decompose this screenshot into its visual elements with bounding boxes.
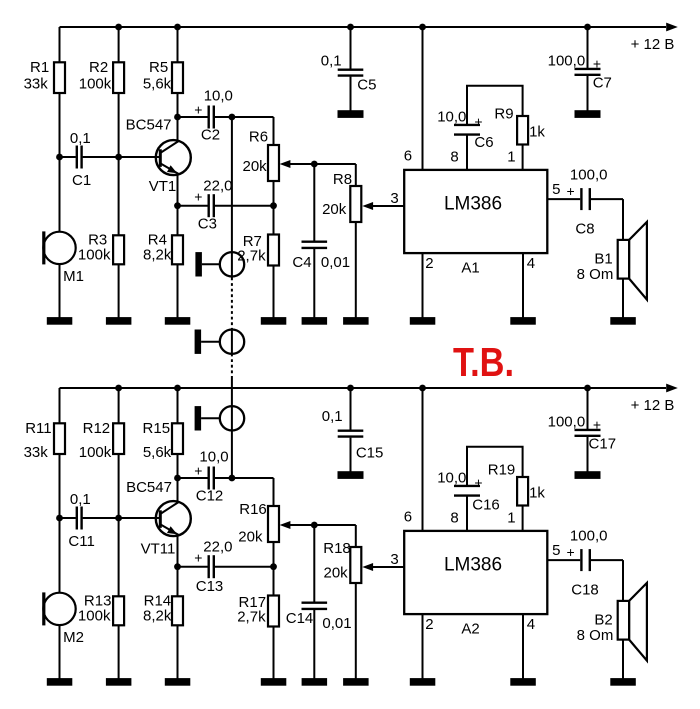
potentiometer R6 20k — [243, 128, 279, 181]
svg-text:20k: 20k — [322, 201, 347, 218]
junction dot: emitter/C3 (top) — [174, 202, 181, 209]
ground under R8 (top) — [343, 317, 369, 325]
resistor R19 1k — [488, 461, 546, 505]
wire: wiper junction down to C14 top plate — [313, 525, 315, 602]
junction dot: rail/C15 (bottom) — [347, 385, 354, 392]
svg-text:5,6k: 5,6k — [143, 76, 172, 93]
svg-text:Т.В.: Т.В. — [453, 339, 514, 385]
svg-text:3: 3 — [390, 190, 398, 207]
wire: pin 5 of A1 to C8 left plate — [547, 198, 580, 200]
junction dot: mic/C11 (bottom) — [56, 515, 63, 522]
microphone M2 — [42, 592, 84, 646]
wire: R18 bottom to ground — [355, 583, 357, 680]
svg-text:8: 8 — [450, 148, 458, 165]
svg-text:2: 2 — [425, 616, 433, 633]
junction dot: emitter/C13 (bottom) — [174, 563, 181, 570]
svg-text:C14: C14 — [286, 610, 314, 627]
wire: junction to R17 top — [273, 567, 275, 596]
svg-text:22,0: 22,0 — [203, 539, 232, 556]
wire: C7 bottom plate to ground — [587, 76, 589, 111]
svg-text:4: 4 — [527, 616, 535, 633]
capacitor C3 22,0 (electrolytic) — [194, 178, 232, 233]
svg-text:+: + — [567, 183, 575, 199]
wire: R15 bottom to collector of VT11 — [177, 454, 179, 502]
resistor R9 1k — [494, 105, 545, 144]
wire: pin 4 of A2 to ground — [522, 614, 524, 680]
svg-text:A1: A1 — [461, 259, 479, 276]
resistor R15 5,6k — [143, 420, 183, 461]
wire: R11 bottom to mic M2 top — [59, 454, 61, 593]
wire: rail to R5 top — [177, 27, 179, 63]
svg-text:BC547: BC547 — [126, 479, 172, 496]
svg-text:0,1: 0,1 — [70, 130, 91, 147]
resistor R13 100k — [78, 592, 124, 625]
R16 wiper arrowhead — [280, 521, 291, 529]
wire: rail to pin 6 of A2 — [422, 388, 424, 532]
wire: R1 bottom to mic M1 top — [59, 93, 61, 232]
wire: mic M1 bottom to ground — [59, 264, 61, 319]
svg-text:C8: C8 — [575, 220, 594, 237]
wire: C5 bottom plate to ground — [350, 77, 352, 111]
capacitor C13 22,0 (electrolytic) — [194, 539, 232, 595]
potentiometer R16 20k — [238, 501, 279, 545]
svg-text:8,2k: 8,2k — [143, 247, 172, 264]
wire: pin 2 of A1 to ground — [422, 253, 424, 319]
+12V rail arrowhead (top) — [666, 23, 678, 32]
svg-text:8 Om: 8 Om — [577, 627, 614, 644]
svg-text:6: 6 — [404, 147, 412, 164]
svg-text:LM386: LM386 — [444, 554, 502, 575]
svg-text:+: + — [194, 101, 202, 117]
svg-text:5: 5 — [552, 181, 560, 198]
svg-text:100k: 100k — [79, 444, 112, 461]
wire: rail to pin 6 of A1 — [422, 27, 424, 171]
wire: dotted cable between jack X2 and jack X3 — [231, 354, 233, 377]
wire: C17 bottom plate to ground — [587, 437, 589, 472]
wire: +12V supply rail (bottom) — [60, 387, 667, 389]
junction dot: rail/pin6 (top) — [419, 24, 426, 31]
svg-text:M1: M1 — [63, 268, 84, 285]
junction dot: R2/R3 base node (top) — [115, 154, 122, 161]
wire: R3 bottom to ground — [118, 264, 120, 318]
+12V rail arrowhead (bottom) — [666, 384, 678, 393]
wire: R13 bottom to ground — [118, 625, 120, 679]
wire: corner down to speaker B1 top — [622, 199, 624, 240]
ground under pin 4 (top) — [510, 317, 536, 325]
wire: rail to R15 top — [177, 388, 179, 424]
wire: R19 bottom to pin 1 of A2 — [522, 505, 524, 532]
ground under R18 (bottom) — [343, 678, 369, 686]
resistor R3 100k — [78, 231, 124, 264]
svg-text:0,01: 0,01 — [322, 615, 351, 632]
wire: C15 bottom plate to ground — [350, 438, 352, 472]
ground under pin 4 (bottom) — [510, 678, 536, 686]
svg-text:100,0: 100,0 — [570, 528, 608, 545]
ground under speaker (bottom) — [610, 678, 636, 686]
capacitor C6 10,0 (electrolytic) — [437, 109, 493, 151]
junction dot: wiper/C4 (top) — [311, 161, 318, 168]
svg-text:C4: C4 — [292, 254, 311, 271]
wire: C16 bottom plate to pin 8 of A2 — [466, 497, 468, 532]
jack plug X1 (top, to C2 node) — [195, 252, 244, 276]
wire: speaker B2 bottom to ground — [622, 640, 624, 680]
ground under pin 2 (bottom) — [410, 678, 436, 686]
wire: pin 2 of A2 to ground — [422, 614, 424, 680]
junction dot: C12/jack (bottom) — [229, 475, 236, 482]
resistor R2 100k — [79, 59, 124, 93]
svg-text:A2: A2 — [461, 620, 479, 637]
wire: R5 bottom to collector of VT1 — [177, 93, 179, 141]
wire: rail down to C17 top plate — [587, 388, 589, 429]
potentiometer R18 20k — [323, 540, 361, 583]
capacitor C14 0,01 — [286, 603, 352, 633]
ground under mic (top) — [47, 317, 73, 325]
junction dot: rail/C5 (top) — [347, 24, 354, 31]
wire: mic node to C1 left plate — [60, 156, 76, 158]
capacitor C15 0,1 — [322, 408, 384, 461]
wire: +12V supply rail (top) — [60, 26, 667, 28]
junction dot: C2/jack (top) — [229, 114, 236, 121]
wire: C11 right plate to base of VT11 — [83, 517, 160, 519]
wire: R8 wiper to pin 3 of A1 — [372, 205, 405, 207]
svg-text:3: 3 — [390, 551, 398, 568]
svg-text:M2: M2 — [63, 629, 84, 646]
svg-text:10,0: 10,0 — [199, 449, 228, 466]
svg-text:C12: C12 — [196, 488, 224, 505]
wire: collector node to C2 left plate — [178, 116, 208, 118]
resistor R7 2,7k — [237, 233, 279, 266]
resistor R1 33k — [24, 59, 65, 93]
wire: C13 right plate to R16/R17 junction — [215, 566, 274, 568]
svg-text:R5: R5 — [149, 59, 168, 76]
ground under R17 (bottom) — [261, 678, 287, 686]
svg-text:8: 8 — [450, 509, 458, 526]
jack plug X2 (middle) — [195, 330, 245, 354]
svg-text:6: 6 — [404, 508, 412, 525]
svg-text:+ 12 В: + 12 В — [631, 397, 675, 414]
resistor R4 8,2k — [143, 231, 183, 264]
ground under C7 — [575, 110, 601, 118]
capacitor C17 100,0 (electrolytic) — [548, 414, 616, 453]
wire: R9 bottom to pin 1 of A1 — [522, 144, 524, 171]
wire: R12 bottom to R13 top — [118, 454, 120, 597]
svg-text:0,1: 0,1 — [321, 52, 342, 69]
svg-text:1: 1 — [507, 148, 515, 165]
wire: R8 bottom to ground — [355, 222, 357, 319]
wire: rail to R12 top — [118, 388, 120, 424]
svg-text:C7: C7 — [593, 75, 612, 92]
ground under R7 (top) — [261, 317, 287, 325]
wire: mic node to C11 left plate — [60, 517, 76, 519]
wire: R18 wiper to pin 3 of A2 — [372, 566, 405, 568]
wire: wiper junction down to C4 top plate — [313, 164, 315, 241]
svg-text:C2: C2 — [201, 127, 220, 144]
wire: C3 right plate to R6/R7 junction — [215, 205, 274, 207]
svg-text:C3: C3 — [198, 215, 217, 232]
R8 wiper arrowhead — [362, 202, 373, 210]
wire: corner down to R16 top — [273, 478, 275, 506]
ground under C5 — [338, 110, 364, 118]
transistor VT11 BC547 — [119, 479, 191, 558]
wire: corner down to R6 top — [273, 117, 275, 145]
svg-text:C18: C18 — [571, 581, 599, 598]
wire: rail to R11 top — [59, 388, 61, 424]
svg-text:100,0: 100,0 — [548, 53, 586, 70]
wire: rail to R2 top — [118, 27, 120, 63]
svg-text:C15: C15 — [356, 444, 384, 461]
wire: R2 bottom to R3 top — [118, 93, 120, 236]
ground under C4 (top) — [302, 317, 328, 325]
junction dot: rail/R5 (top) — [174, 24, 181, 31]
junction dot: mic/C1 (top) — [56, 154, 63, 161]
ground under R13 (bottom) — [106, 678, 131, 686]
capacitor C7 100,0 (electrolytic) — [548, 53, 612, 92]
capacitor C11 0,1 — [68, 491, 94, 550]
wire: speaker B1 bottom to ground — [622, 279, 624, 319]
svg-text:R15: R15 — [143, 420, 171, 437]
svg-text:R6: R6 — [249, 128, 268, 145]
capacitor C12 10,0 (electrolytic) — [194, 449, 228, 505]
svg-text:10,0: 10,0 — [437, 470, 466, 487]
svg-text:VT1: VT1 — [149, 178, 177, 195]
svg-text:R2: R2 — [89, 59, 108, 76]
svg-text:+: + — [474, 114, 482, 130]
ground under pin 2 (top) — [410, 317, 436, 325]
svg-text:100k: 100k — [78, 608, 111, 625]
wire: corner down to speaker B2 top — [622, 560, 624, 601]
wire: C1 right plate to base of VT1 — [83, 156, 160, 158]
microphone M1 — [42, 231, 84, 285]
svg-text:100k: 100k — [78, 247, 111, 264]
svg-text:20k: 20k — [243, 158, 268, 175]
svg-text:C16: C16 — [472, 496, 500, 513]
potentiometer R8 20k — [322, 171, 361, 222]
wire: dotted cable between jack X1 and jack X2 — [231, 278, 233, 331]
svg-text:0,1: 0,1 — [70, 491, 91, 508]
svg-text:R8: R8 — [333, 171, 352, 188]
ground under C14 (bottom) — [302, 678, 328, 686]
wire: C12 right plate to R16 top corner — [215, 477, 274, 479]
wire: rail down to C5 top plate — [350, 27, 352, 69]
wire: junction to R7 top — [273, 206, 275, 235]
junction dot: rail/R2 (top) — [115, 24, 122, 31]
capacitor C2 10,0 (electrolytic) — [194, 88, 233, 144]
wire: R16 wiper to R18 top corner — [290, 524, 356, 526]
svg-text:C17: C17 — [589, 436, 617, 453]
wire: R4 bottom to ground — [177, 264, 179, 318]
speaker B2 8 Om — [577, 583, 647, 661]
wire: bypass bracket pin 8 to pin 1 — [467, 447, 523, 485]
junction dot: R6/R7 (top) — [270, 202, 277, 209]
svg-text:+: + — [194, 188, 202, 204]
jack plug X3 (bottom, to C12 node) — [195, 406, 245, 430]
svg-text:100,0: 100,0 — [570, 167, 608, 184]
svg-text:+: + — [474, 475, 482, 491]
svg-text:8,2k: 8,2k — [143, 608, 172, 625]
wire: pin 5 of A2 to C18 left plate — [547, 559, 580, 561]
R18 wiper arrowhead — [362, 563, 373, 571]
svg-text:R18: R18 — [323, 540, 351, 557]
op-amp IC A2 LM386 — [404, 531, 547, 637]
ground under speaker (top) — [610, 317, 636, 325]
svg-text:100,0: 100,0 — [548, 414, 586, 431]
resistor R11 33k — [24, 420, 65, 461]
svg-text:22,0: 22,0 — [203, 178, 232, 195]
svg-text:33k: 33k — [24, 444, 49, 461]
svg-text:LM386: LM386 — [444, 193, 502, 214]
svg-text:0,01: 0,01 — [321, 254, 350, 271]
resistor R17 2,7k — [237, 594, 279, 627]
svg-text:20k: 20k — [324, 564, 349, 581]
junction dot: collector/C2 (top) — [174, 114, 181, 121]
svg-text:C11: C11 — [68, 533, 94, 550]
wire: collector node to C12 left plate — [178, 477, 208, 479]
svg-text:R12: R12 — [83, 420, 111, 437]
svg-text:C1: C1 — [72, 172, 91, 189]
junction dot: R16/R17 (bottom) — [270, 563, 277, 570]
svg-text:R9: R9 — [494, 105, 513, 122]
svg-text:8 Om: 8 Om — [577, 266, 614, 283]
wire: R7 bottom to ground — [273, 265, 275, 318]
ground under R4 (top) — [165, 317, 191, 325]
wire: corner down to R8 top — [355, 164, 357, 186]
svg-text:+: + — [593, 417, 601, 433]
op-amp IC A1 LM386 — [404, 170, 547, 276]
junction dot: rail/R12 (bottom) — [115, 385, 122, 392]
svg-text:R16: R16 — [239, 501, 267, 518]
junction dot: R12/R13 base node (bottom) — [115, 515, 122, 522]
svg-text:C13: C13 — [196, 578, 224, 595]
wire: C2 junction down to jack X1 — [231, 117, 233, 278]
svg-text:R1: R1 — [30, 59, 49, 76]
resistor R5 5,6k — [143, 59, 183, 93]
svg-text:C6: C6 — [474, 134, 493, 151]
wire: emitter of VT1 to R4 top — [177, 174, 179, 236]
wire: C4 bottom plate to ground — [313, 249, 315, 318]
wire: R6 wiper to R8 top corner — [290, 163, 356, 165]
wire: C18 right plate to corner above speaker — [591, 559, 623, 561]
wire: emitter of VT11 to R14 top — [177, 535, 179, 597]
speaker B1 8 Om — [577, 222, 647, 300]
wire: bypass bracket pin 8 to pin 1 — [467, 86, 523, 124]
capacitor C4 0,01 — [292, 242, 350, 271]
svg-text:2: 2 — [425, 255, 433, 272]
wire: corner down to R18 top — [355, 525, 357, 547]
svg-text:10,0: 10,0 — [437, 109, 466, 126]
junction dot: rail/C7 (top) — [584, 24, 591, 31]
resistor R14 8,2k — [143, 592, 183, 625]
ground under mic (bottom) — [47, 678, 73, 686]
svg-text:5: 5 — [552, 542, 560, 559]
wire: R14 bottom to ground — [177, 625, 179, 679]
svg-text:100k: 100k — [79, 76, 112, 93]
svg-text:R19: R19 — [488, 461, 516, 478]
wire: rail to R1 top — [59, 27, 61, 63]
wire: mic M2 bottom to ground — [59, 625, 61, 680]
ground under R14 (bottom) — [165, 678, 191, 686]
wire: through jack X2 — [231, 330, 233, 353]
svg-text:1k: 1k — [529, 123, 545, 140]
junction dot: rail/C17 (bottom) — [584, 385, 591, 392]
wire: C6 bottom plate to pin 8 of A1 — [466, 136, 468, 171]
ground under R3 (top) — [106, 317, 131, 325]
capacitor C18 100,0 (electrolytic) — [567, 528, 608, 599]
svg-text:33k: 33k — [24, 76, 49, 93]
svg-text:2,7k: 2,7k — [237, 609, 266, 626]
wire: emitter node to C3 left plate — [178, 205, 208, 207]
svg-text:+: + — [567, 544, 575, 560]
svg-text:+ 12 В: + 12 В — [631, 36, 675, 53]
svg-text:10,0: 10,0 — [204, 88, 233, 105]
svg-text:4: 4 — [527, 255, 535, 272]
wire: through jack X3 down to C12 junction — [231, 377, 233, 479]
wire: emitter node to C13 left plate — [178, 566, 208, 568]
svg-text:+: + — [593, 56, 601, 72]
junction dot: rail/R15 (bottom) — [174, 385, 181, 392]
svg-text:VT11: VT11 — [141, 540, 176, 557]
svg-text:C5: C5 — [357, 77, 376, 94]
svg-text:+: + — [194, 462, 202, 478]
wire: rail down to C7 top plate — [587, 27, 589, 68]
transistor VT1 BC547 — [119, 117, 191, 195]
svg-text:BC547: BC547 — [126, 117, 172, 134]
junction dot: rail/pin6 (bottom) — [419, 385, 426, 392]
wire: R17 bottom to ground — [273, 626, 275, 679]
capacitor C5 0,1 — [321, 52, 377, 93]
wire: C14 bottom plate to ground — [313, 610, 315, 679]
wire: R6 bottom to junction — [273, 181, 275, 206]
svg-text:20k: 20k — [238, 528, 263, 545]
capacitor C16 10,0 (electrolytic) — [437, 470, 500, 514]
resistor R12 100k — [79, 420, 124, 461]
wire: pin 4 of A1 to ground — [522, 253, 524, 319]
svg-text:+: + — [194, 549, 202, 565]
svg-text:5,6k: 5,6k — [143, 444, 172, 461]
wire: R16 bottom to junction — [273, 542, 275, 567]
wire: rail down to C15 top plate — [350, 388, 352, 430]
svg-text:1: 1 — [507, 509, 515, 526]
ground under C15 — [338, 471, 364, 479]
capacitor C1 0,1 — [70, 130, 91, 189]
junction dot: collector/C12 (bottom) — [174, 475, 181, 482]
R6 wiper arrowhead — [280, 160, 291, 168]
wire: C2 right plate to R6 top corner — [215, 116, 274, 118]
capacitor C8 100,0 (electrolytic) — [567, 167, 608, 238]
junction dot: wiper/C14 (bottom) — [311, 522, 318, 529]
svg-text:0,1: 0,1 — [322, 408, 343, 425]
wire: C8 right plate to corner above speaker — [591, 198, 623, 200]
svg-text:R11: R11 — [25, 420, 51, 437]
svg-text:1k: 1k — [529, 484, 545, 501]
ground under C17 — [575, 471, 601, 479]
